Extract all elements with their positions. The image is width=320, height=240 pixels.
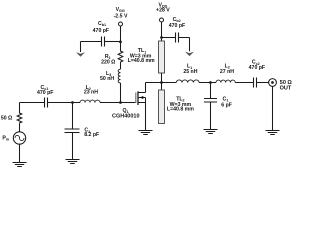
- svg-text:L=40.8 mm: L=40.8 mm: [167, 107, 194, 113]
- capacitor C2: [65, 129, 80, 133]
- wire R1 to L3: [120, 62, 122, 69]
- transmission line TL2: [159, 90, 165, 124]
- wire C1 to ground: [210, 102, 212, 130]
- svg-text:220 Ω: 220 Ω: [101, 60, 115, 66]
- svg-text:8.2 pF: 8.2 pF: [84, 132, 99, 138]
- ground arrow (Cb1): [80, 42, 82, 53]
- wire Cc1 to node: [48, 102, 80, 104]
- capacitor C1: [204, 99, 217, 103]
- svg-text:27 nH: 27 nH: [220, 69, 234, 75]
- svg-text:50 nH: 50 nH: [100, 76, 114, 82]
- ground (Pin): [13, 163, 27, 167]
- svg-text:6 pF: 6 pF: [221, 102, 232, 108]
- capacitor Cb1: [102, 37, 105, 47]
- ground (C2): [66, 160, 80, 164]
- wire L2 to Cc2: [235, 82, 253, 84]
- node junction C2: [71, 101, 74, 104]
- capacitor Cb2: [176, 33, 179, 43]
- svg-text:470 pF: 470 pF: [93, 28, 109, 34]
- wire Cb1 branch left: [81, 41, 102, 43]
- svg-text:+28 V: +28 V: [156, 8, 170, 14]
- node junction drain: [160, 81, 163, 84]
- ground (Q1 source): [139, 131, 153, 135]
- svg-text:470 pF: 470 pF: [169, 23, 185, 29]
- wire VGG down to junction: [120, 26, 122, 42]
- wire to source circle: [19, 123, 21, 132]
- node junction C1: [209, 81, 212, 84]
- svg-text:50 Ω: 50 Ω: [1, 116, 12, 122]
- wire TL1 to drain rail: [161, 73, 163, 83]
- drain rail wire: [146, 82, 177, 84]
- svg-text:470 pF: 470 pF: [249, 65, 265, 71]
- wire L2 to gate node: [100, 102, 121, 104]
- wire C2 to ground: [72, 133, 74, 160]
- transistor Q1 CGH40010: [135, 93, 137, 104]
- source Pin: [13, 132, 25, 144]
- ground (C1): [204, 130, 218, 134]
- capacitor Cc2: [254, 78, 257, 88]
- svg-text:23 nH: 23 nH: [84, 90, 98, 96]
- wire out to ground: [272, 86, 274, 130]
- wire Cb1 branch right: [105, 41, 121, 43]
- transmission line TL1: [159, 41, 165, 73]
- inductor L1: [176, 80, 199, 83]
- wire source down: [145, 98, 147, 131]
- svg-text:Pin: Pin: [2, 136, 9, 142]
- wire C1 stem: [210, 83, 212, 99]
- resistor 50 ohm input: [17, 103, 22, 124]
- wire L3 to gate node: [120, 83, 122, 103]
- svg-text:Cb1: Cb1: [98, 21, 106, 27]
- wire VDD down: [161, 22, 163, 41]
- resistor R1: [118, 42, 123, 62]
- wire Cb2 to ground: [179, 38, 190, 52]
- wire L1 to node: [199, 82, 216, 84]
- wire Cc2 to out terminal: [257, 82, 269, 84]
- svg-text:CGH40010: CGH40010: [112, 113, 140, 119]
- node VDD terminal: [160, 18, 164, 22]
- wire gate node to transistor: [121, 102, 136, 104]
- capacitor Cc1: [45, 98, 48, 108]
- wire source to ground: [19, 144, 21, 162]
- node VGG terminal: [119, 22, 123, 26]
- svg-text:L=40.8 mm: L=40.8 mm: [128, 58, 155, 64]
- svg-text:470 pF: 470 pF: [37, 90, 53, 96]
- svg-text:25 nH: 25 nH: [183, 69, 197, 75]
- node junction gate-bias: [119, 41, 122, 44]
- inductor L3: [118, 69, 120, 83]
- wire input corner to Cc1: [20, 102, 45, 104]
- wire C2 stem: [72, 103, 74, 130]
- wire TL2 stem: [161, 83, 163, 91]
- svg-text:VGG: VGG: [116, 7, 125, 13]
- svg-text:OUT: OUT: [280, 85, 292, 91]
- node junction gate: [119, 101, 122, 104]
- node junction VDD: [160, 36, 163, 39]
- svg-text:-2.5 V: -2.5 V: [114, 14, 128, 20]
- wire to Cb2: [162, 37, 176, 39]
- inductor L2 input: [80, 100, 100, 102]
- ground arrow (Cb2): [185, 52, 194, 57]
- wire drain up: [145, 83, 147, 93]
- inductor L2 output: [216, 80, 235, 82]
- ground (output): [266, 131, 280, 135]
- node output terminal: [269, 79, 277, 87]
